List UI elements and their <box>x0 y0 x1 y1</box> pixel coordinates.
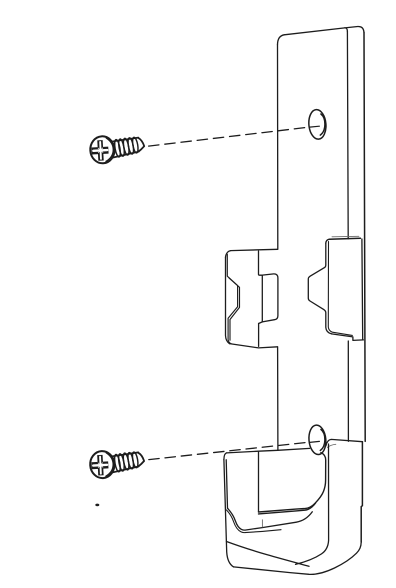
wire plate left edge <box>277 45 279 250</box>
bottom strike box <box>224 439 363 574</box>
wire tab L bottom edge <box>229 344 277 348</box>
wire tab L fold D left edge <box>261 275 263 322</box>
wire plate front-right edge upper <box>346 31 349 239</box>
wire box outer right edge <box>361 442 362 542</box>
stray dot mark <box>95 504 99 507</box>
bottom screw hole <box>308 424 327 455</box>
wire box outer left edge <box>224 460 234 567</box>
wire box front wall bottom edge <box>227 542 310 567</box>
wire tab L top edge <box>231 249 278 250</box>
wire plate top edge <box>284 28 345 35</box>
wire plate front-right edge lower <box>347 341 349 441</box>
wire tab R top edge <box>329 238 360 239</box>
wire tab R top back edge <box>332 235 359 238</box>
hole H2 countersink rim <box>308 424 327 455</box>
wire tab R top-left corner <box>326 239 329 243</box>
wire tab L inner contour <box>227 254 237 344</box>
right keeper tab <box>308 236 363 340</box>
wire box pocket vertical <box>258 452 260 513</box>
wire plate top-left corner <box>278 35 285 45</box>
wire box top-left corner <box>224 453 227 460</box>
hole H1 countersink rim <box>308 109 328 140</box>
wire tab L inner contour offset <box>229 278 240 340</box>
wire tab L pocket vertical lower <box>258 324 260 347</box>
wire box front wall rim upper <box>259 453 326 512</box>
wire tab R right edge <box>361 239 364 340</box>
screw S1 (top) <box>89 135 144 164</box>
strike plate body <box>278 26 366 450</box>
wire tab L pocket vertical upper <box>259 251 263 275</box>
wire box rim right <box>326 439 363 445</box>
wire tab L pocket step lower <box>259 322 263 324</box>
wire tab R inner fold line <box>328 242 352 336</box>
left keeper tab <box>226 249 278 348</box>
wire tab L outer left edge <box>226 257 230 343</box>
hole H2 inner bore <box>320 429 325 450</box>
wire box outer bottom edge <box>234 542 362 574</box>
wire box rim left <box>227 448 310 453</box>
wire tab R bottom edge <box>332 334 364 341</box>
wire plate left edge lower <box>277 347 279 450</box>
wire box front wall right edge <box>296 444 329 564</box>
bottom screw leader dashed line <box>149 443 306 460</box>
wire box rim right inner echo <box>327 444 335 447</box>
screw S1 phillips cross <box>91 140 109 161</box>
screw S1 head inner arc <box>106 138 113 161</box>
hole H2 axis dash <box>310 441 320 442</box>
wire plate front-right corner <box>345 28 348 31</box>
wire box front wall rim lower <box>259 503 316 514</box>
screw S1 tip <box>138 138 144 152</box>
screw S1 threads <box>114 139 122 157</box>
wire tab L fold D outline <box>262 274 278 322</box>
top screw leader dashed line <box>149 128 306 147</box>
wire box inner S-curve upper <box>228 508 313 530</box>
wire plate back top edge <box>345 26 364 32</box>
top screw hole <box>308 109 328 140</box>
hole H1 axis dash <box>310 125 320 128</box>
screw S1 shank bottom edge <box>111 152 139 158</box>
wire tab R left edge and wedge <box>308 243 331 334</box>
wire plate back-right edge <box>364 33 365 442</box>
hole H1 inner bore <box>320 114 325 135</box>
wire box inner S-curve lower <box>226 510 281 533</box>
wire box inner left line <box>226 460 227 508</box>
screw S1 shank top edge <box>111 138 138 142</box>
wire tab L top-left corner <box>226 251 231 258</box>
screw S1 head <box>89 135 115 164</box>
screw S2 (bottom) <box>89 450 144 479</box>
wire box lip tick <box>261 520 263 527</box>
